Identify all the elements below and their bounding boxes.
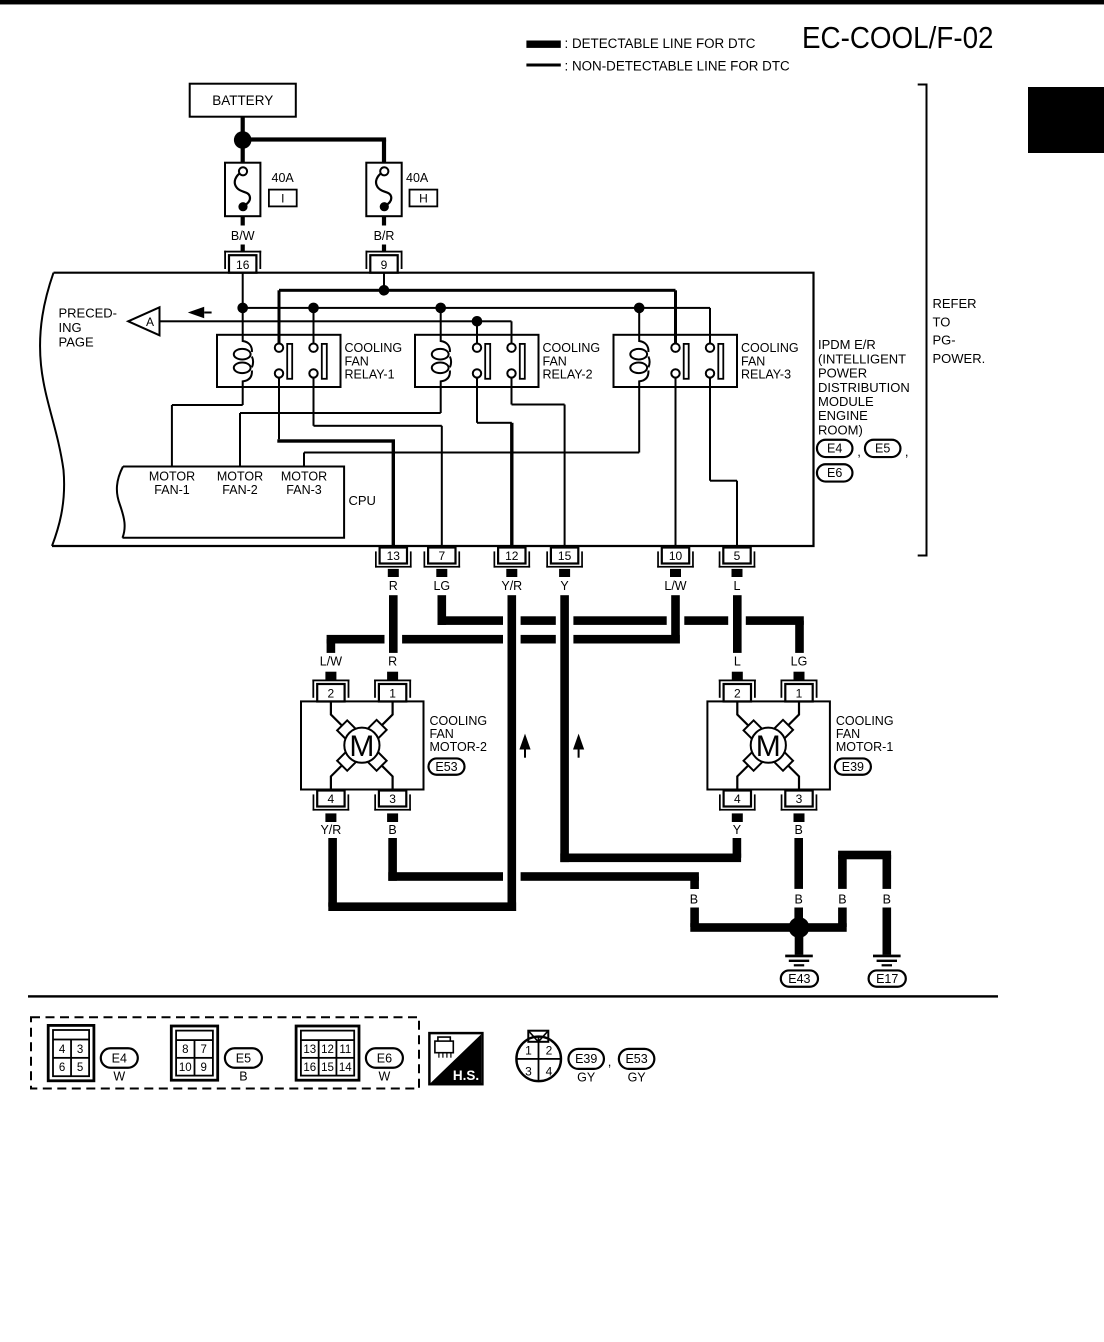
connector pin 15 IPDM bottom <box>546 548 583 568</box>
IPDM E/R box outline <box>40 273 813 546</box>
svg-text:E6: E6 <box>827 466 842 480</box>
svg-text:13: 13 <box>303 1044 316 1056</box>
svg-text:POWER.: POWER. <box>933 351 986 366</box>
wire E17 leg down <box>883 908 892 955</box>
wire stub pin R <box>388 569 399 577</box>
label COOLING FAN RELAY-3 <box>741 341 799 382</box>
svg-text:11: 11 <box>339 1044 351 1056</box>
svg-text:IPDM E/R: IPDM E/R <box>818 337 876 352</box>
svg-text:3: 3 <box>77 1044 83 1056</box>
svg-text:RELAY-1: RELAY-1 <box>345 368 395 382</box>
label L at motor top pin <box>734 655 741 669</box>
connector ref E43 oval <box>781 970 818 986</box>
junction node ground E43 <box>789 917 810 938</box>
svg-text:E5: E5 <box>875 442 890 456</box>
svg-text:R: R <box>389 579 398 593</box>
svg-text:,: , <box>857 444 861 459</box>
label CPU <box>349 493 376 508</box>
wire relay2 contact2 to pin 15 <box>511 378 566 546</box>
svg-text:E39: E39 <box>575 1052 597 1066</box>
label COOLING FAN MOTOR-2 <box>430 714 488 754</box>
junction node battery feed <box>234 131 252 149</box>
wire R pin13 to motor-2 pin1 <box>389 595 398 653</box>
label MOTOR FAN-2 <box>217 470 263 498</box>
wire Y pin15 to motor-1 pin4 <box>560 595 741 862</box>
relay K1 COOLING FAN RELAY-1 <box>217 335 341 387</box>
legend non-detectable line sample <box>526 64 560 67</box>
wire stub bridge left leg to ground bus <box>838 908 847 928</box>
svg-text:FAN: FAN <box>543 354 567 368</box>
svg-text:E39: E39 <box>842 760 864 774</box>
junction node pin9 bus <box>379 285 390 296</box>
svg-text:PG-: PG- <box>933 333 956 348</box>
svg-text:REFER: REFER <box>933 296 977 311</box>
comma <box>905 444 909 459</box>
label L/W at motor top pin <box>320 655 342 669</box>
relay K2 COOLING FAN RELAY-2 <box>415 335 539 387</box>
wire junction to fuse H <box>243 137 386 162</box>
connector pin 16 IPDM top <box>224 251 261 273</box>
label COOLING FAN RELAY-2 <box>543 341 601 382</box>
svg-text:40A: 40A <box>406 171 429 185</box>
svg-text:5: 5 <box>734 549 741 563</box>
svg-text:8: 8 <box>182 1044 188 1056</box>
svg-text:E53: E53 <box>435 760 457 774</box>
svg-text:I: I <box>281 192 284 206</box>
wire B/R fuse H to pin 9 <box>382 216 386 251</box>
fuse I slot label I <box>269 190 297 207</box>
svg-text:LG: LG <box>433 579 450 593</box>
wire B/W fuse I to pin 16 <box>241 216 245 251</box>
fuse I value 40A <box>272 171 295 185</box>
connector face E39/E53 round <box>516 1031 561 1082</box>
label R wire <box>389 579 398 593</box>
svg-text:: NON-DETECTABLE LINE FOR DTC: : NON-DETECTABLE LINE FOR DTC <box>565 58 791 73</box>
svg-text:3: 3 <box>525 1065 532 1079</box>
svg-text:16: 16 <box>236 258 250 272</box>
wire L/W pin10 to motor-2 pin2 <box>327 595 680 653</box>
svg-text:W: W <box>378 1070 390 1084</box>
svg-text:B: B <box>690 893 698 907</box>
wire stub pin Y/R <box>506 569 517 577</box>
connector pin 13 IPDM bottom <box>375 548 412 568</box>
wire stub pin LG <box>436 569 447 577</box>
svg-text:COOLING: COOLING <box>741 341 799 355</box>
svg-text:16: 16 <box>303 1062 316 1074</box>
svg-text:E5: E5 <box>236 1051 251 1065</box>
comma <box>608 1054 612 1069</box>
svg-text:FAN: FAN <box>345 354 369 368</box>
connector ref E53 oval motor-2 <box>429 758 465 774</box>
battery <box>190 84 296 117</box>
wire E43 junction to ground <box>795 936 804 955</box>
label B motor-1 ground wire <box>795 893 803 907</box>
label COOLING FAN RELAY-1 <box>345 341 403 382</box>
svg-text:1: 1 <box>525 1044 532 1058</box>
svg-text:9: 9 <box>381 258 388 272</box>
svg-text:MODULE: MODULE <box>818 394 874 409</box>
wire junction to fuse I <box>241 140 245 163</box>
wire stub pin Y <box>559 569 570 577</box>
svg-text:GY: GY <box>628 1071 647 1085</box>
svg-text:5: 5 <box>77 1062 83 1074</box>
svg-text:L: L <box>734 579 741 593</box>
wire stub pin L <box>732 569 743 577</box>
connector ref E5 oval legend <box>225 1048 262 1083</box>
legend non-detectable text <box>565 58 791 73</box>
CPU box <box>117 467 344 538</box>
wire relay3 contact2 to pin 5 <box>709 378 738 546</box>
svg-text:B/W: B/W <box>231 229 255 243</box>
label MOTOR FAN-1 <box>149 470 195 498</box>
svg-text:COOLING: COOLING <box>345 341 403 355</box>
wire battery to junction <box>241 117 245 140</box>
H.S. view logo <box>429 1033 482 1084</box>
svg-text:,: , <box>905 444 909 459</box>
footer separator line <box>28 995 998 997</box>
wire relay1 coil to CPU MOTOR FAN-1 <box>171 387 244 467</box>
label L/W wire <box>664 579 686 593</box>
svg-text:15: 15 <box>321 1062 334 1074</box>
connector pin 5 IPDM bottom <box>719 548 756 568</box>
svg-text:B: B <box>883 893 891 907</box>
svg-text:FAN-2: FAN-2 <box>222 483 257 497</box>
svg-text:L: L <box>734 655 741 669</box>
junction node relay2 contact1 feed <box>472 316 483 327</box>
svg-text:BATTERY: BATTERY <box>212 93 273 108</box>
svg-text:Y: Y <box>560 579 569 593</box>
wire A-line preceding page <box>160 320 513 343</box>
svg-text:ING: ING <box>59 320 82 335</box>
svg-text:RELAY-3: RELAY-3 <box>741 368 791 382</box>
junction node relay2 coil feed <box>435 303 446 314</box>
wire relay1 contact1 to pin 13 <box>277 378 395 546</box>
wire Y/R pin12 to motor-2 pin4 <box>328 595 516 911</box>
svg-text:COOLING: COOLING <box>836 714 894 728</box>
label B/R <box>374 229 395 243</box>
svg-text:ENGINE: ENGINE <box>818 408 868 423</box>
wire bridge to E17 ground <box>838 851 891 889</box>
svg-text:E4: E4 <box>112 1051 127 1065</box>
svg-text:,: , <box>608 1054 612 1069</box>
label LG wire <box>433 579 450 593</box>
wire relay3 contact1 to pin 10 <box>675 378 677 546</box>
relay K3 COOLING FAN RELAY-3 <box>614 335 738 387</box>
connector face E5 <box>171 1026 217 1080</box>
connector ref E39 oval legend <box>568 1049 604 1085</box>
label MOTOR FAN-3 <box>281 470 327 498</box>
svg-text:H.S.: H.S. <box>453 1068 479 1083</box>
fuse H slot label H <box>410 190 438 207</box>
junction node B/W-pin16 <box>237 303 248 314</box>
fuse H 40A <box>366 163 401 217</box>
label Y wire <box>560 579 569 593</box>
svg-text:7: 7 <box>438 549 445 563</box>
svg-text:4: 4 <box>546 1065 553 1079</box>
connector ref E17 oval <box>869 970 906 986</box>
wire relay3 coil to CPU MOTOR FAN-3 <box>303 387 640 467</box>
svg-text:7: 7 <box>200 1044 206 1056</box>
svg-text:TO: TO <box>933 314 951 329</box>
svg-text:FAN-3: FAN-3 <box>286 483 321 497</box>
label COOLING FAN MOTOR-1 <box>836 714 894 754</box>
svg-text:2: 2 <box>546 1044 553 1058</box>
svg-text:Y/R: Y/R <box>320 823 341 837</box>
svg-text:RELAY-2: RELAY-2 <box>543 368 593 382</box>
arrowhead direction marker <box>188 307 212 319</box>
svg-text:: DETECTABLE LINE FOR DTC: : DETECTABLE LINE FOR DTC <box>565 36 756 51</box>
label B at motor bottom pin <box>795 823 803 837</box>
page tab black marker <box>1028 87 1104 153</box>
svg-text:E43: E43 <box>788 972 810 986</box>
svg-text:Y: Y <box>733 823 742 837</box>
svg-text:A: A <box>146 315 154 329</box>
wire B motor-2 pin3 to ground junction <box>388 838 699 889</box>
wire bus line from pin 16 (B/W feed) <box>242 273 711 344</box>
legend detectable line sample <box>526 41 560 48</box>
svg-text:E4: E4 <box>827 442 842 456</box>
svg-text:B: B <box>795 893 803 907</box>
comma <box>857 444 861 459</box>
svg-text:EC-COOL/F-02: EC-COOL/F-02 <box>802 21 994 55</box>
wire ground bus to junction E43 <box>690 923 846 932</box>
arrow up marker Y/R <box>519 734 530 758</box>
label REFER TO PG-POWER <box>933 296 986 366</box>
svg-text:40A: 40A <box>272 171 295 185</box>
title EC-COOL/F-02 <box>802 21 994 55</box>
svg-text:PRECED-: PRECED- <box>59 305 118 320</box>
fuse H value 40A <box>406 171 429 185</box>
ground symbol E17 <box>873 955 901 967</box>
svg-text:R: R <box>388 655 397 669</box>
svg-text:MOTOR-2: MOTOR-2 <box>430 740 487 754</box>
connector ref E4 oval legend <box>101 1048 138 1083</box>
svg-text:E53: E53 <box>625 1052 647 1066</box>
svg-text:12: 12 <box>505 549 519 563</box>
wire stub B motor-1 to junction <box>794 908 803 920</box>
wire LG pin7 to motor-1 pin1 <box>438 595 804 653</box>
wire bus line from pin 9 (B/R feed) <box>278 273 678 344</box>
connector ref E53 oval legend <box>619 1049 655 1085</box>
connector pin 9 IPDM top <box>366 251 403 273</box>
label B near ground corner <box>690 893 698 907</box>
svg-text:4: 4 <box>59 1044 66 1056</box>
svg-text:FAN: FAN <box>836 727 860 741</box>
label Y/R at motor bottom pin <box>320 823 341 837</box>
svg-text:10: 10 <box>669 549 683 563</box>
connector pin 10 IPDM bottom <box>657 548 694 568</box>
label B/W <box>231 229 255 243</box>
wire L pin5 to motor-1 pin2 <box>733 595 742 653</box>
legend detectable text <box>565 36 756 51</box>
wire B motor-1 pin3 down <box>794 838 803 889</box>
svg-text:H: H <box>419 192 428 206</box>
label PRECEDING PAGE <box>59 305 118 349</box>
connector face E4 <box>48 1025 94 1080</box>
connector ref E5 oval <box>865 440 901 457</box>
svg-text:COOLING: COOLING <box>543 341 601 355</box>
top page border bar <box>0 0 1104 4</box>
svg-text:B: B <box>795 823 803 837</box>
svg-text:12: 12 <box>321 1044 334 1056</box>
motor M1 COOLING FAN MOTOR-1 <box>707 672 830 822</box>
svg-text:B/R: B/R <box>374 229 395 243</box>
connector pin 7 IPDM bottom <box>424 548 461 568</box>
label B bridge left leg <box>838 893 846 907</box>
svg-text:L/W: L/W <box>664 579 686 593</box>
connector ref E6 oval legend <box>366 1048 403 1083</box>
svg-text:13: 13 <box>387 549 401 563</box>
svg-text:PAGE: PAGE <box>59 334 94 349</box>
node A preceding-page triangle <box>128 307 159 335</box>
connector face E6 <box>296 1026 359 1080</box>
wire relay2 contact1 to pin 12 <box>476 378 514 546</box>
svg-text:GY: GY <box>577 1071 596 1085</box>
svg-text:6: 6 <box>59 1062 65 1074</box>
ground symbol E43 <box>785 955 813 967</box>
svg-text:FAN: FAN <box>430 727 454 741</box>
svg-text:ROOM): ROOM) <box>818 422 863 437</box>
label Y at motor bottom pin <box>733 823 742 837</box>
label IPDM E/R (INTELLIGENT POWER DISTRIBUTION MODULE ENGINE ROOM) <box>818 337 910 437</box>
svg-text:LG: LG <box>791 655 808 669</box>
legend dashed box <box>31 1017 419 1088</box>
fuse I 40A <box>225 163 260 217</box>
svg-text:(INTELLIGENT: (INTELLIGENT <box>818 351 906 366</box>
label B bridge right leg <box>883 893 891 907</box>
label B at motor bottom pin <box>388 823 396 837</box>
connector ref E4 oval <box>817 440 853 457</box>
svg-text:MOTOR: MOTOR <box>217 470 263 484</box>
connector ref E39 oval motor-1 <box>835 758 871 774</box>
svg-text:10: 10 <box>179 1062 192 1074</box>
svg-text:MOTOR-1: MOTOR-1 <box>836 740 893 754</box>
wire relay2 coil to CPU MOTOR FAN-2 <box>239 387 442 467</box>
wire stub pin L/W <box>670 569 681 577</box>
svg-text:14: 14 <box>339 1062 352 1074</box>
svg-text:W: W <box>113 1070 125 1084</box>
svg-text:Y/R: Y/R <box>501 579 522 593</box>
svg-text:FAN-1: FAN-1 <box>154 483 189 497</box>
svg-text:FAN: FAN <box>741 354 765 368</box>
wire relay1 contact2 to pin 7 <box>313 378 443 546</box>
svg-text:E6: E6 <box>377 1051 392 1065</box>
connector ref E6 oval <box>817 464 853 481</box>
label Y/R wire <box>501 579 522 593</box>
svg-text:B: B <box>838 893 846 907</box>
wire stub B corner to ground bus <box>690 908 699 928</box>
svg-text:B: B <box>388 823 396 837</box>
svg-text:MOTOR: MOTOR <box>281 470 327 484</box>
label LG at motor top pin <box>791 655 808 669</box>
junction node relay1 contact2 feed <box>308 303 319 314</box>
svg-text:MOTOR: MOTOR <box>149 470 195 484</box>
motor M2 COOLING FAN MOTOR-2 <box>301 672 424 822</box>
connector pin 12 IPDM bottom <box>494 548 531 568</box>
junction node relay3 coil feed <box>634 303 645 314</box>
svg-text:DISTRIBUTION: DISTRIBUTION <box>818 380 910 395</box>
svg-text:9: 9 <box>200 1062 206 1074</box>
svg-text:L/W: L/W <box>320 655 342 669</box>
svg-text:COOLING: COOLING <box>430 714 488 728</box>
svg-text:15: 15 <box>558 549 572 563</box>
svg-text:B: B <box>239 1070 247 1084</box>
refer bracket <box>918 84 928 557</box>
label R at motor top pin <box>388 655 397 669</box>
svg-text:E17: E17 <box>876 972 898 986</box>
svg-text:CPU: CPU <box>349 493 376 508</box>
arrow up marker Y <box>573 734 584 758</box>
label L wire <box>734 579 741 593</box>
svg-text:POWER: POWER <box>818 366 867 381</box>
